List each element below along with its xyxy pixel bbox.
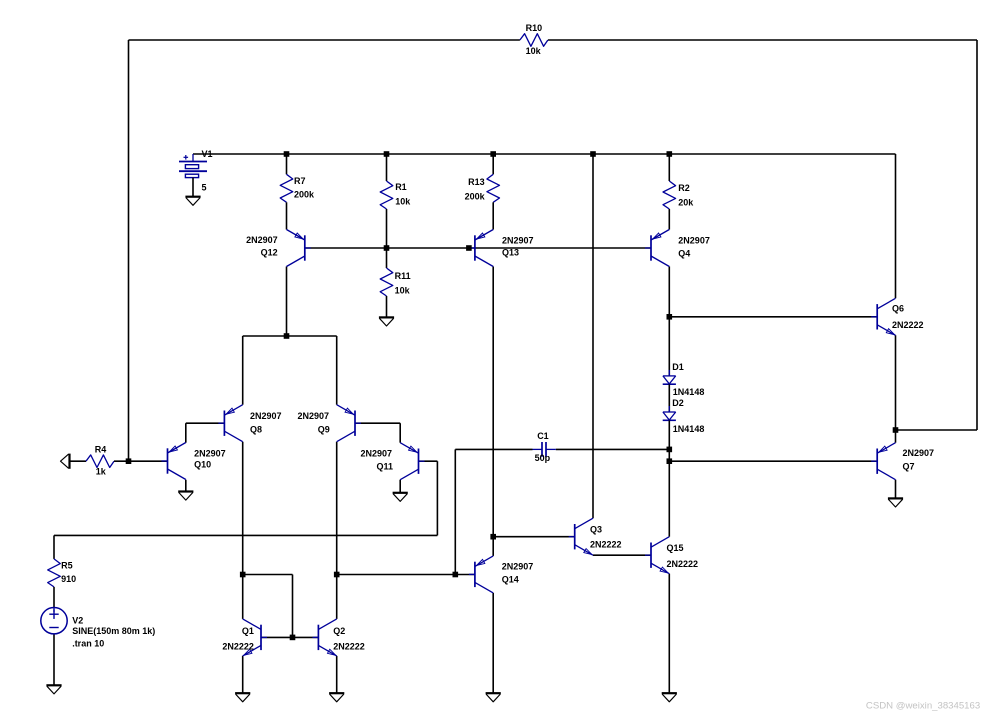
svg-text:2N2222: 2N2222 bbox=[222, 641, 254, 651]
svg-text:D2: D2 bbox=[672, 398, 684, 408]
svg-text:Q12: Q12 bbox=[261, 248, 278, 258]
svg-text:Q15: Q15 bbox=[667, 543, 684, 553]
svg-text:R7: R7 bbox=[294, 176, 306, 186]
svg-text:1k: 1k bbox=[96, 466, 107, 476]
svg-text:5: 5 bbox=[202, 182, 207, 192]
svg-text:C1: C1 bbox=[537, 431, 549, 441]
svg-text:10k: 10k bbox=[395, 197, 411, 207]
svg-text:R11: R11 bbox=[395, 271, 411, 281]
svg-text:D1: D1 bbox=[672, 362, 684, 372]
svg-text:2N2907: 2N2907 bbox=[250, 411, 282, 421]
svg-text:2N2222: 2N2222 bbox=[590, 540, 622, 550]
svg-text:Q14: Q14 bbox=[502, 575, 519, 585]
svg-text:R5: R5 bbox=[61, 561, 73, 571]
svg-text:200k: 200k bbox=[465, 192, 486, 202]
svg-text:Q1: Q1 bbox=[242, 626, 254, 636]
svg-text:2N2222: 2N2222 bbox=[333, 641, 365, 651]
svg-text:2N2907: 2N2907 bbox=[194, 448, 226, 458]
svg-text:Q6: Q6 bbox=[892, 303, 904, 313]
svg-text:2N2907: 2N2907 bbox=[678, 235, 710, 245]
svg-text:200k: 200k bbox=[294, 190, 315, 200]
svg-text:1N4148: 1N4148 bbox=[673, 387, 705, 397]
svg-text:Q4: Q4 bbox=[678, 249, 690, 259]
svg-text:Q10: Q10 bbox=[194, 460, 211, 470]
svg-text:2N2907: 2N2907 bbox=[360, 449, 392, 459]
svg-text:2N2907: 2N2907 bbox=[502, 561, 534, 571]
svg-text:50p: 50p bbox=[535, 453, 551, 463]
svg-text:1N4148: 1N4148 bbox=[673, 424, 705, 434]
svg-text:2N2907: 2N2907 bbox=[246, 235, 278, 245]
svg-text:10k: 10k bbox=[526, 46, 542, 56]
svg-text:Q11: Q11 bbox=[376, 462, 393, 472]
svg-text:.tran 10: .tran 10 bbox=[72, 639, 104, 649]
svg-text:2N2222: 2N2222 bbox=[667, 559, 699, 569]
svg-text:Q9: Q9 bbox=[318, 425, 330, 435]
svg-text:R13: R13 bbox=[468, 177, 485, 187]
svg-text:R10: R10 bbox=[526, 23, 543, 33]
svg-text:Q8: Q8 bbox=[250, 425, 262, 435]
svg-text:V2: V2 bbox=[72, 615, 83, 625]
svg-text:R4: R4 bbox=[95, 444, 107, 454]
svg-text:Q3: Q3 bbox=[590, 525, 602, 535]
svg-text:Q2: Q2 bbox=[333, 626, 345, 636]
svg-text:Q13: Q13 bbox=[502, 247, 519, 257]
svg-text:SINE(150m 80m 1k): SINE(150m 80m 1k) bbox=[72, 626, 155, 636]
svg-text:2N2907: 2N2907 bbox=[502, 235, 534, 245]
svg-text:R1: R1 bbox=[395, 182, 407, 192]
svg-text:R2: R2 bbox=[678, 183, 690, 193]
svg-text:2N2222: 2N2222 bbox=[892, 320, 924, 330]
svg-text:CSDN @weixin_38345163: CSDN @weixin_38345163 bbox=[866, 700, 980, 711]
svg-text:Q7: Q7 bbox=[903, 461, 915, 471]
svg-text:V1: V1 bbox=[202, 149, 213, 159]
svg-text:2N2907: 2N2907 bbox=[297, 411, 329, 421]
svg-text:910: 910 bbox=[61, 574, 76, 584]
svg-text:10k: 10k bbox=[395, 286, 411, 296]
svg-text:20k: 20k bbox=[678, 197, 694, 207]
svg-text:2N2907: 2N2907 bbox=[903, 448, 935, 458]
